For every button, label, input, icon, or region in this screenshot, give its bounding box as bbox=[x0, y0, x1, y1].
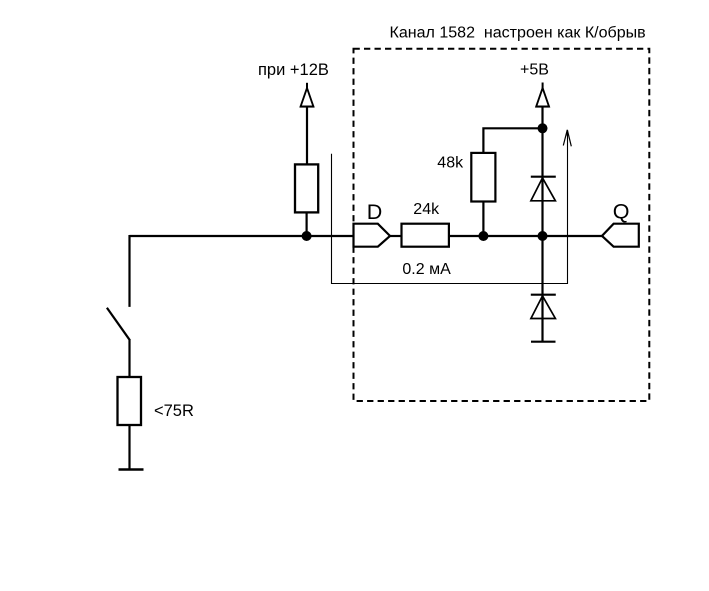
junction: node A (24k / 48k) bbox=[478, 231, 488, 241]
wire: D to 24k bbox=[390, 235, 402, 237]
terminal bar below diode D2 bbox=[531, 341, 556, 343]
svg-text:<75R: <75R bbox=[154, 402, 194, 420]
svg-text:Q: Q bbox=[613, 200, 630, 224]
svg-text:24k: 24k bbox=[413, 201, 440, 218]
label "48k" bbox=[437, 155, 464, 172]
label "24k" bbox=[413, 201, 440, 218]
svg-text:Канал 1582 настроен как К/обр: Канал 1582 настроен как К/обрыв bbox=[390, 24, 646, 42]
resistor 24k bbox=[402, 224, 449, 247]
junction: node B (diodes / Q) bbox=[538, 231, 548, 241]
value label "<75R" bbox=[154, 402, 194, 420]
wire: node B down through lower diode bbox=[541, 236, 543, 342]
svg-text:при +12В: при +12В bbox=[258, 61, 329, 79]
wire: 24k to node A bbox=[449, 235, 484, 237]
label Q bbox=[613, 200, 630, 224]
resistor 48k bbox=[471, 153, 495, 202]
svg-text:D: D bbox=[367, 200, 383, 224]
title label "Канал 1582 настроен как К/обрыв" bbox=[390, 24, 646, 42]
diode D2 (lower clamp) bbox=[531, 295, 556, 319]
wire: main net left segment bbox=[130, 235, 354, 237]
junction: +5V node bbox=[538, 123, 548, 133]
label "+5В" bbox=[520, 62, 549, 79]
power +5V arrow symbol bbox=[536, 83, 550, 129]
label D bbox=[367, 200, 383, 224]
wire: 48k top to +5V node bbox=[483, 128, 542, 153]
wire: node B to Q bbox=[543, 235, 603, 237]
switch S1 (open) bbox=[107, 308, 130, 377]
resistor <75R bbox=[118, 377, 142, 425]
ground bbox=[119, 468, 144, 471]
dashed enclosure box bbox=[354, 49, 650, 401]
wire: resistor to ground bbox=[128, 425, 130, 470]
label "0.2 мА" bbox=[402, 261, 451, 278]
label "при +12В" bbox=[258, 61, 329, 79]
svg-text:0.2 мА: 0.2 мА bbox=[402, 261, 451, 278]
svg-text:48k: 48k bbox=[437, 155, 464, 172]
wire: pullup resistor to main net bbox=[306, 212, 308, 236]
wire: left branch vertical down to switch bbox=[128, 235, 130, 307]
wire: +5V node down through diode to node B bbox=[541, 128, 543, 236]
connector D (input pin) bbox=[354, 224, 391, 247]
resistor R pullup (+12V) bbox=[295, 164, 318, 212]
svg-text:+5В: +5В bbox=[520, 62, 549, 79]
wire: node A to node B bbox=[483, 235, 542, 237]
junction: pullup / main net bbox=[302, 231, 312, 241]
connector Q (output pin) bbox=[602, 224, 639, 247]
wire: 48k bottom to node A bbox=[482, 202, 484, 237]
current loop sense line with arrow (thin) bbox=[332, 130, 572, 284]
power +12V arrow symbol bbox=[300, 83, 314, 165]
diode D1 (clamp to +5V) bbox=[531, 177, 556, 201]
